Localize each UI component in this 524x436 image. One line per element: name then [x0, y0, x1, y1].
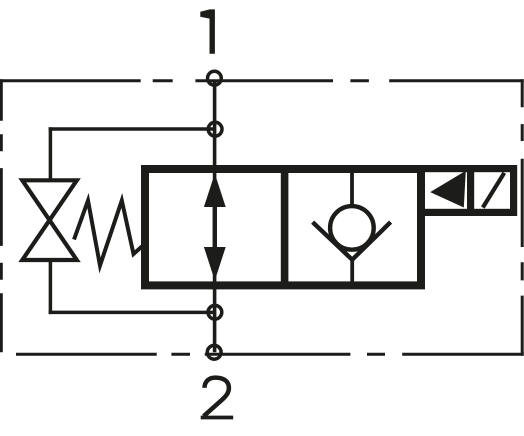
check valve seat	[313, 222, 391, 260]
wire: arrow connector	[213, 205, 217, 249]
enclosure bottom chain line	[16, 353, 524, 356]
solenoid slash	[483, 173, 505, 208]
spring	[74, 201, 143, 266]
valve body divider	[281, 167, 289, 287]
check valve stub top	[350, 169, 354, 208]
enclosure left chain line	[0, 79, 3, 352]
wire: pilot branch horizontal lower	[49, 311, 215, 315]
port label 2	[201, 378, 234, 418]
arrow down (left cell)	[204, 247, 226, 281]
enclosure top chain line	[0, 79, 524, 82]
solenoid box	[421, 169, 514, 213]
shutoff valve V1 (hourglass symbol)	[22, 180, 77, 260]
arrow up (left cell)	[204, 174, 226, 208]
wire: pilot branch vertical below shutoff valve	[49, 259, 53, 314]
node circle lower junction	[208, 305, 222, 319]
solenoid divider	[467, 165, 474, 216]
wire: pilot branch horizontal upper	[49, 127, 215, 131]
node circle port 1	[208, 71, 222, 85]
check valve ball	[330, 206, 374, 250]
node circle pilot tap	[208, 122, 222, 136]
valve body outline	[145, 169, 421, 285]
node circle port 2	[207, 345, 221, 359]
solenoid triangle	[430, 171, 466, 208]
enclosure right chain line	[521, 79, 524, 356]
port label 1	[200, 9, 215, 53]
wire: main vertical line port 1 to port 2	[213, 81, 217, 353]
wire: pilot branch vertical above shutoff valve	[49, 127, 53, 181]
check valve stub bottom	[350, 258, 354, 287]
